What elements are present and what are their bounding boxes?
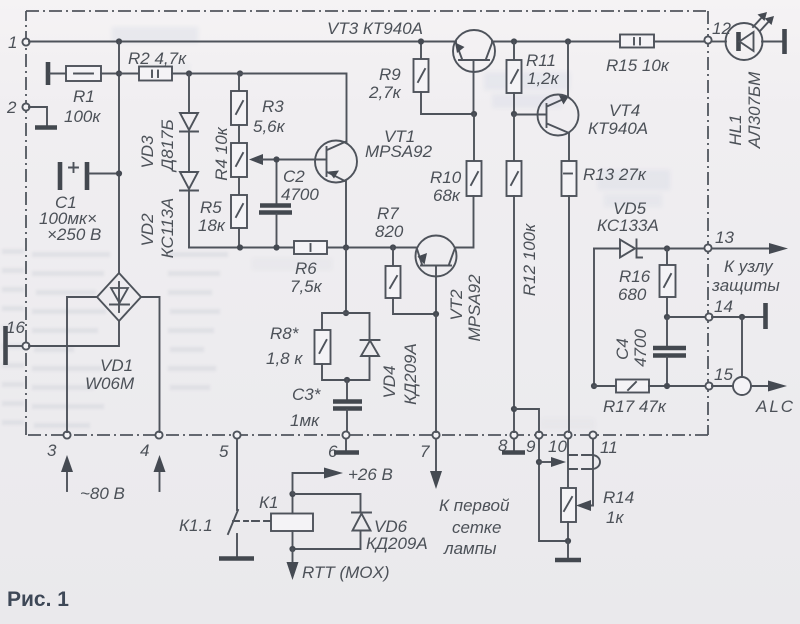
- wire pin 5 down to switch: [236, 439, 238, 510]
- resistor R6 7.5k: [290, 241, 327, 296]
- capacitor C2 4700: [259, 160, 319, 248]
- node pin 12: [704, 19, 731, 44]
- node junction VT2 base / R7 y314: [433, 311, 439, 317]
- resistor R10 68k: [430, 114, 482, 205]
- node junction R5 bottom: [237, 244, 243, 250]
- svg-text:R1: R1: [73, 87, 95, 106]
- terminal bar at R1 left: [46, 62, 51, 85]
- wire VD5 anode drop x594: [593, 249, 595, 387]
- svg-text:R15 10к: R15 10к: [606, 56, 670, 75]
- node pin 11: [589, 431, 617, 457]
- node junction VD5/R16 y248: [664, 245, 670, 251]
- resistor R16 680: [618, 249, 676, 318]
- wire VT2 base to pin 7: [435, 314, 437, 432]
- node output arrow RTT: [287, 549, 390, 582]
- svg-text:R7: R7: [377, 204, 399, 223]
- diode VD3 D817B (zener): [138, 113, 198, 173]
- svg-text:100к: 100к: [64, 107, 101, 126]
- svg-text:1,8 к: 1,8 к: [266, 349, 303, 368]
- svg-text:ALC: ALC: [755, 397, 795, 416]
- svg-text:7,5к: 7,5к: [290, 277, 323, 296]
- svg-text:C2: C2: [283, 167, 305, 186]
- svg-text:RTT (MOX): RTT (MOX): [302, 563, 390, 582]
- svg-text:R5: R5: [200, 198, 222, 217]
- svg-text:КД209А: КД209А: [401, 343, 420, 405]
- wire R4 wiper to VT1 base: [249, 154, 325, 165]
- node junction C4 bottom y386: [664, 383, 670, 389]
- wire pin 9 down to shield tap: [539, 439, 568, 541]
- svg-text:КС113А: КС113А: [158, 198, 177, 259]
- svg-text:Д817Б: Д817Б: [158, 119, 177, 172]
- svg-text:2: 2: [6, 98, 17, 117]
- svg-text:5: 5: [219, 442, 229, 461]
- svg-text:КС133А: КС133А: [597, 216, 659, 235]
- wire y73 rail corner to VT1 collector: [240, 74, 347, 143]
- svg-text:18к: 18к: [198, 216, 226, 235]
- potentiometer R4 10k: [212, 125, 247, 181]
- svg-text:+26 В: +26 В: [348, 465, 393, 484]
- wire pin 10 down to R14: [567, 439, 569, 488]
- node junction R2/VD3 x189: [186, 70, 192, 76]
- ground below pin 6: [334, 439, 359, 453]
- svg-text:12: 12: [712, 19, 731, 38]
- LED HL1 AL307BM: [712, 12, 783, 149]
- ground below switch: [219, 556, 254, 561]
- svg-text:R14: R14: [603, 488, 634, 507]
- bridge rectifier VD1 W06M: [85, 273, 141, 393]
- chassis stub at pin 2: [29, 107, 57, 128]
- node pin 2: [6, 98, 30, 117]
- svg-text:КД209А: КД209А: [366, 534, 428, 553]
- node junction VT3 base y114: [471, 111, 477, 117]
- node junction x742 y317: [739, 314, 745, 320]
- wire bridge AC right to pin 4: [141, 297, 160, 432]
- node pin 5: [219, 431, 241, 461]
- svg-text:1,2к: 1,2к: [527, 69, 560, 88]
- resistor R11 1.2k: [507, 42, 560, 115]
- wire VT4 emitter up to rail: [567, 42, 569, 98]
- node junction R12 jog y409: [511, 406, 517, 412]
- wire emitter node down to R8/VD4: [345, 248, 347, 314]
- svg-text:VT2: VT2: [447, 289, 466, 321]
- terminal bar right of pin 14: [763, 303, 768, 329]
- node pin 14: [705, 297, 733, 321]
- svg-text:W06M: W06M: [85, 374, 135, 393]
- node junction VT4 emitter rail: [565, 38, 571, 44]
- node junction R11 top: [511, 38, 517, 44]
- node junction R14 bottom y541: [565, 538, 571, 544]
- svg-text:C3*: C3*: [292, 385, 322, 404]
- node AC input arrow pin 3: [61, 455, 73, 491]
- node junction R8/VD4 top y313: [343, 310, 349, 316]
- svg-text:лампы: лампы: [443, 539, 497, 558]
- resistor R8* 1.8k: [266, 313, 347, 380]
- resistor R7 820: [375, 204, 436, 314]
- svg-text:VD1: VD1: [100, 356, 133, 375]
- switch contact K1.1: [179, 510, 271, 556]
- svg-text:~80 В: ~80 В: [80, 484, 125, 503]
- transistor VT3 KT940A: [327, 19, 495, 114]
- svg-text:15: 15: [714, 365, 733, 384]
- svg-text:4: 4: [140, 441, 149, 460]
- svg-text:R17 47к: R17 47к: [603, 397, 667, 416]
- wire jog to pin 9: [514, 409, 539, 432]
- svg-text:защиты: защиты: [711, 276, 780, 295]
- svg-text:АЛ307БМ: АЛ307БМ: [745, 71, 764, 149]
- svg-text:10: 10: [548, 437, 567, 456]
- node junction relay bottom y549: [289, 546, 295, 552]
- svg-text:R4 10к: R4 10к: [212, 126, 231, 180]
- diode VD2 KS113A (zener): [138, 172, 198, 258]
- svg-text:R8*: R8*: [270, 324, 300, 343]
- svg-text:VD2: VD2: [138, 213, 157, 247]
- node pin 7: [420, 431, 440, 461]
- svg-text:3: 3: [47, 441, 57, 460]
- wire main vertical bus x=119: [118, 42, 120, 274]
- resistor R2 4.7k: [119, 49, 240, 81]
- node shield arrow: [539, 457, 566, 467]
- svg-text:5,6к: 5,6к: [253, 117, 286, 136]
- node output arrow ALC: [751, 381, 795, 417]
- wire VT1 emitter down: [345, 181, 347, 248]
- node junction C2 bottom: [273, 244, 279, 250]
- diode VD5 KS133A (zener): [594, 199, 704, 258]
- node pin 3: [47, 431, 71, 460]
- svg-text:11: 11: [600, 438, 618, 457]
- label to protection unit: [711, 257, 780, 295]
- node junction VT1 emitter rail: [343, 244, 349, 250]
- svg-text:VT4: VT4: [609, 101, 640, 120]
- resistor R17 47k: [594, 380, 705, 417]
- node junction R9 top rail: [418, 38, 424, 44]
- wire common rail y247: [189, 247, 416, 249]
- svg-text:R12 100к: R12 100к: [520, 223, 539, 296]
- node junction x119 on pin1 rail: [116, 38, 122, 44]
- resistor R3 5.6k: [231, 74, 286, 137]
- node pin 9: [526, 431, 543, 456]
- svg-text:R13 27к: R13 27к: [583, 165, 647, 184]
- svg-text:9: 9: [526, 437, 536, 456]
- node junction R17 left y386: [591, 383, 597, 389]
- svg-text:R16: R16: [619, 267, 651, 286]
- svg-text:Рис. 1: Рис. 1: [7, 588, 69, 611]
- wire shielded pair (dashed screen): [569, 455, 600, 469]
- node AC input arrow pin 4: [154, 455, 166, 491]
- label figure caption: [7, 588, 69, 611]
- node junction R8/VD4 bottom y380: [344, 377, 350, 383]
- capacitor C4 4700: [613, 317, 686, 386]
- node junction R7 top rail: [390, 244, 396, 250]
- svg-text:16: 16: [6, 318, 25, 337]
- svg-text:VD4: VD4: [380, 365, 399, 398]
- node pin 1: [8, 33, 30, 52]
- wire VT2 collector to R10: [455, 196, 474, 248]
- transistor VT4 KT940A: [514, 95, 648, 139]
- svg-text:820: 820: [375, 222, 404, 241]
- resistor R5 18k: [198, 177, 247, 248]
- svg-text:4700: 4700: [631, 329, 650, 367]
- svg-text:1мк: 1мк: [290, 411, 320, 430]
- label to first grid of tube: [439, 496, 510, 558]
- wire bridge minus to pin 16: [29, 321, 119, 346]
- svg-text:680: 680: [618, 285, 647, 304]
- node pin 16: [6, 318, 30, 350]
- node junction R3 top x240 y73: [237, 70, 243, 76]
- node junction relay top y494: [289, 491, 295, 497]
- svg-text:R2 4,7к: R2 4,7к: [128, 49, 187, 68]
- node junction shield tap y462: [536, 459, 542, 465]
- svg-text:7: 7: [420, 442, 430, 461]
- resistor R13 27k: [562, 133, 647, 432]
- transistor VT1 MPSA92: [315, 127, 433, 183]
- svg-text:68к: 68к: [433, 186, 461, 205]
- wire collector rail VT3 to R15: [492, 41, 620, 43]
- node pin 4: [140, 431, 163, 460]
- svg-text:К узлу: К узлу: [724, 257, 774, 276]
- svg-text:4700: 4700: [281, 185, 319, 204]
- terminal bar left of pin 16: [6, 326, 23, 365]
- svg-text:MPSA92: MPSA92: [365, 142, 433, 161]
- svg-text:R9: R9: [379, 65, 401, 84]
- svg-text:К1.1: К1.1: [179, 516, 213, 535]
- resistor R1 100k: [50, 66, 119, 126]
- svg-text:HL1: HL1: [726, 114, 745, 145]
- wire pin 14 row: [667, 316, 764, 318]
- potentiometer R14 1k: [561, 488, 634, 541]
- node junction R11/VT4 base y114: [511, 111, 517, 117]
- svg-text:14: 14: [714, 297, 733, 316]
- svg-text:VT3 КТ940А: VT3 КТ940А: [327, 19, 423, 38]
- node junction C1/bus y173: [116, 170, 122, 176]
- terminal bar right of LED: [782, 29, 787, 54]
- svg-text:КТ940А: КТ940А: [588, 119, 648, 138]
- ground below R14: [555, 541, 581, 560]
- capacitor C3* 1uF: [290, 380, 362, 431]
- svg-text:сетке: сетке: [452, 518, 501, 537]
- node supply arrow +26V: [293, 465, 393, 494]
- node pin 15: [705, 365, 733, 390]
- node output arrow pin 13: [712, 243, 788, 254]
- svg-text:MPSA92: MPSA92: [465, 274, 484, 342]
- svg-text:×250 В: ×250 В: [47, 225, 101, 244]
- transistor VT2 MPSA92: [416, 236, 485, 342]
- node junction R1/R2 x119 y73: [116, 70, 122, 76]
- svg-text:2,7к: 2,7к: [368, 83, 402, 102]
- label ~80 V: [80, 484, 125, 503]
- wire VD3 chain drop x=189: [188, 74, 190, 114]
- diode VD4 KD209A: [346, 313, 420, 405]
- wire pin1 rail y=41.5: [29, 41, 456, 43]
- svg-text:1к: 1к: [606, 508, 624, 527]
- svg-text:К1: К1: [259, 493, 278, 512]
- svg-text:R11: R11: [526, 51, 556, 70]
- node pin 10: [548, 431, 572, 456]
- ground below pin 8: [502, 439, 525, 453]
- svg-text:VD3: VD3: [138, 135, 157, 169]
- svg-text:1: 1: [8, 33, 17, 52]
- resistor R9 2.7k: [368, 42, 474, 115]
- wire module border (dash-dot frame): [26, 11, 708, 435]
- node pin 13: [704, 228, 734, 252]
- svg-text:R3: R3: [262, 97, 284, 116]
- node junction R16/C4 y317: [664, 314, 670, 320]
- capacitor C1 100uF 250V: [39, 162, 119, 244]
- svg-text:C4: C4: [613, 338, 632, 360]
- node pin 8: [498, 431, 518, 455]
- svg-text:К первой: К первой: [439, 496, 510, 515]
- node bushing circle on ALC line: [712, 317, 751, 395]
- diode VD6 KD209A (flyback): [293, 494, 428, 553]
- relay K1 coil: [259, 493, 313, 549]
- wire pin 11 down to R14 wiper: [576, 439, 593, 511]
- svg-text:R10: R10: [430, 168, 462, 187]
- resistor R12 100k: [507, 114, 540, 432]
- svg-text:R6: R6: [295, 259, 317, 278]
- resistor R15 10k: [606, 35, 704, 76]
- node pin 6: [328, 431, 350, 461]
- wire bridge AC left to pin 3: [67, 297, 97, 432]
- node junction wiper/C2 x277 y159: [273, 156, 279, 162]
- svg-text:13: 13: [715, 228, 734, 247]
- node output arrow below pin 7: [430, 439, 442, 489]
